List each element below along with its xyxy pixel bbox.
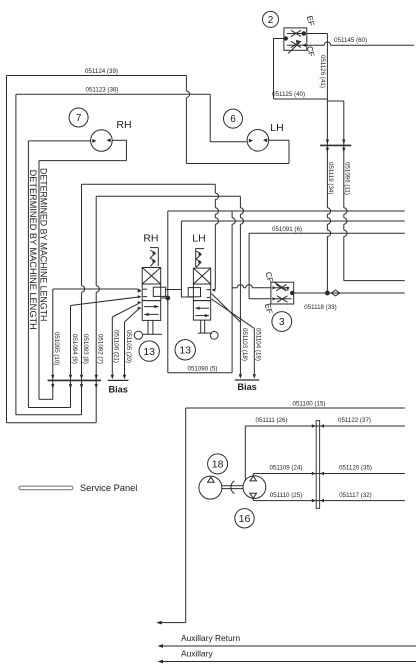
wire 051106 (21) bias riser	[111, 317, 113, 376]
bus line3	[181, 220, 404, 222]
hose 051090 right riser x=232.1	[231, 211, 233, 218]
svg-text:7: 7	[76, 113, 82, 124]
wire 051100 left drop	[185, 408, 187, 623]
wire EF to drop 051126	[307, 33, 328, 35]
connector bar	[48, 379, 101, 381]
svg-text:051090 (5): 051090 (5)	[188, 365, 218, 372]
bias 1 bar	[108, 379, 129, 381]
panel coupler at y=500.6	[312, 499, 316, 503]
coupler bar right	[320, 144, 351, 146]
svg-text:13: 13	[179, 345, 191, 357]
wire 051124 left drop	[6, 76, 8, 423]
junction dot valve3 right port	[291, 291, 294, 294]
valve RH arrow right	[144, 306, 158, 308]
junction dot 051118 x=327.4	[326, 291, 330, 295]
wire RH motor under loop	[125, 140, 127, 160]
svg-text:051111 (26): 051111 (26)	[256, 417, 288, 424]
wire 051123 right drop to LH motor	[209, 94, 211, 142]
bias 2 bar	[235, 379, 260, 381]
valve U3 top orifice X	[276, 284, 287, 291]
svg-text:DETERMINED BY MACHINE LENGTH: DETERMINED BY MACHINE LENGTH	[28, 170, 38, 330]
wire 051094 diagonal into RH valve	[71, 297, 139, 306]
wire auxillary line	[160, 661, 416, 663]
valve LH port ticks	[207, 289, 210, 291]
connector arrows at x=96.2	[95, 375, 98, 380]
valve RH arrow left	[144, 313, 158, 315]
connector arrows at x=52.8	[51, 375, 54, 380]
wire 051123 (38) top run	[16, 93, 210, 95]
motor LH left port arrow	[249, 139, 253, 143]
harness bottom U innermost	[39, 398, 53, 400]
svg-text:051117 (32): 051117 (32)	[339, 492, 371, 499]
valve RH stem	[147, 320, 149, 334]
wire 051124 (39) top run	[7, 75, 187, 77]
wire 051125 (40) line	[274, 98, 328, 100]
wire RH motor right port	[112, 139, 127, 141]
wire 051118 (33) line	[294, 292, 405, 294]
motor RH right port arrow	[107, 138, 111, 142]
svg-text:2: 2	[268, 15, 274, 26]
valve LH middle section	[193, 284, 210, 301]
svg-text:051110 (25): 051110 (25)	[270, 492, 302, 499]
valve LH X-box	[193, 268, 210, 284]
valve RH stem bar	[143, 333, 162, 335]
coupler arrows right pair	[326, 140, 329, 145]
svg-text:051124 (39): 051124 (39)	[85, 68, 118, 75]
valve LH arrow left	[195, 307, 209, 309]
svg-text:16: 16	[239, 513, 251, 525]
wire 051106 diagonal into RH valve	[112, 303, 139, 317]
pump right triangle down	[250, 493, 257, 498]
wire line2 drop x=167.8 with junction	[167, 211, 169, 373]
valve RH solenoid frame and arrows	[150, 247, 158, 249]
svg-text:6: 6	[230, 114, 236, 125]
valve LH arrow right	[195, 315, 209, 317]
wire 051093 (8) riser	[81, 184, 83, 285]
pump left circle	[199, 476, 222, 499]
svg-text:051096 (11): 051096 (11)	[344, 162, 351, 195]
harness bottom U second	[16, 414, 82, 416]
wire 051091 (6) line	[249, 232, 405, 234]
svg-text:LH: LH	[192, 233, 205, 245]
svg-text:13: 13	[143, 346, 155, 358]
pump left triangle	[208, 477, 215, 482]
hose 051090 bottom run	[168, 372, 232, 374]
svg-text:LH: LH	[270, 122, 283, 134]
wire 051093 top run line0	[82, 183, 216, 185]
bias 1 arrows	[111, 375, 114, 380]
wire 051094 (9) riser	[70, 306, 72, 408]
legend service panel symbol	[19, 486, 73, 490]
svg-text:051104 (19): 051104 (19)	[254, 328, 261, 361]
valve U2 bottom orifice X	[291, 41, 301, 47]
panel coupler at y=473.5	[312, 472, 316, 476]
valve U3 bottom orifice X	[277, 296, 288, 302]
wire 051123 left drop	[15, 94, 17, 414]
svg-text:051095 (10): 051095 (10)	[53, 332, 60, 365]
balloon 6	[224, 109, 243, 128]
valve RH middle section	[142, 284, 161, 301]
wire 051109 (24) line	[253, 473, 404, 475]
svg-text:051119 (34): 051119 (34)	[327, 162, 334, 194]
balloon 16	[235, 509, 254, 528]
balloon 2	[263, 11, 279, 27]
balloon 7	[69, 108, 88, 127]
pump right circle	[243, 476, 266, 499]
wire line3 drop x=181.4	[180, 221, 182, 290]
wire 051104 (19) diagonal from LH valve	[212, 299, 252, 326]
balloon 13 LH	[175, 340, 195, 360]
svg-text:051092 (7): 051092 (7)	[97, 334, 104, 364]
wire 051091 drop to valve3 lower-left port	[248, 233, 250, 298]
valve U2 top orifice X	[291, 30, 301, 36]
wire 051100 arrow out	[158, 622, 186, 624]
svg-text:051091 (6): 051091 (6)	[272, 226, 302, 233]
valve LH stem	[200, 320, 202, 333]
wire 051096 corner to right	[344, 280, 405, 282]
valve U3 control arrow	[274, 282, 286, 291]
wire 051111 (26) line	[245, 425, 404, 427]
wire valve3 upper-left port from hose 051090 riser	[232, 287, 237, 289]
junction dot between valves	[166, 296, 170, 300]
wire 051124 right drop to LH motor loop	[185, 76, 187, 91]
motor LH circle	[247, 130, 269, 152]
harness bottom U outermost	[7, 422, 97, 424]
connector arrows at x=81.5	[80, 375, 83, 380]
junction dot EF port	[302, 32, 306, 36]
svg-text:051123 (38): 051123 (38)	[86, 87, 119, 94]
svg-text:051145 (60): 051145 (60)	[334, 37, 367, 44]
wire line0 drop x=215.3 to LH valve right	[214, 184, 216, 193]
svg-text:051100 (15): 051100 (15)	[293, 401, 326, 408]
svg-text:Bias: Bias	[237, 382, 256, 392]
valve LH lower section	[193, 301, 210, 321]
valve U2 control arrow	[288, 43, 300, 54]
pump shaft	[222, 485, 243, 487]
connector arrows at x=70.5	[69, 375, 72, 380]
valve U2 box	[284, 28, 307, 50]
junction dot valve2 left port	[284, 37, 287, 40]
bias 2 arrows	[239, 374, 242, 379]
valve LH gauge circle	[210, 331, 218, 339]
valve LH stem bar	[198, 332, 211, 334]
wire 051110 (25) line	[253, 500, 404, 502]
valve LH solenoid frame and arrows	[196, 248, 204, 250]
svg-text:051106 (21): 051106 (21)	[113, 330, 120, 363]
svg-text:051120 (35): 051120 (35)	[339, 464, 372, 471]
svg-text:051094 (9): 051094 (9)	[71, 334, 78, 364]
motor RH circle	[91, 130, 113, 152]
svg-text:DETERMINED BY MACHINE LENGTH: DETERMINED BY MACHINE LENGTH	[39, 168, 49, 321]
wire 051105 (20) bias riser	[124, 322, 126, 376]
bus line2 051090 upper	[168, 210, 405, 212]
svg-text:RH: RH	[116, 119, 131, 131]
wire 051092 (7) riser	[95, 196, 97, 285]
balloon 18	[208, 454, 228, 474]
wire RH motor left drop	[27, 141, 29, 408]
valve U3 lower port arrow	[272, 297, 276, 300]
wire line1 drop x=240.4 to bias 2	[239, 196, 241, 208]
wire 051126 (41) drop	[326, 34, 328, 208]
wire 051095 (10) riser	[52, 289, 54, 399]
motor RH left port arrow	[92, 139, 96, 143]
wire 051145 (60) line	[303, 44, 324, 46]
wire RH indicator to LH valve Z-link	[166, 290, 194, 298]
svg-text:051105 (20): 051105 (20)	[125, 330, 132, 363]
balloon 13 RH	[139, 341, 159, 361]
check symbol diamond on 051118	[331, 290, 339, 296]
svg-text:Auxillary: Auxillary	[181, 649, 213, 659]
valve RH port ticks	[143, 288, 147, 290]
valve RH position indicator box	[153, 287, 165, 296]
svg-text:Bias: Bias	[108, 384, 127, 394]
svg-text:051118 (33): 051118 (33)	[304, 304, 336, 311]
svg-text:051126 (41): 051126 (41)	[319, 55, 326, 88]
wire RH right port to junction	[161, 297, 168, 299]
valve U2 port arrow	[302, 44, 306, 47]
wire 051092 top run line1	[96, 195, 240, 197]
valve LH position indicator box	[188, 288, 200, 297]
wire auxillary return line	[160, 645, 416, 647]
valve RH lower section	[142, 301, 161, 321]
svg-text:051109 (24): 051109 (24)	[270, 464, 303, 471]
wire RH motor left port	[28, 140, 91, 142]
svg-text:18: 18	[212, 459, 224, 471]
wire pump inlet drop	[244, 426, 246, 480]
svg-text:3: 3	[279, 317, 285, 328]
wire 051095 arrow into RH valve	[138, 289, 142, 292]
wire branch to 051096	[327, 100, 343, 102]
svg-text:051093 (8): 051093 (8)	[82, 334, 89, 364]
service panel vertical	[316, 421, 319, 509]
valve RH X-box	[142, 268, 161, 285]
wire valve2 left port loop	[274, 39, 284, 100]
wire 051095 horizontal run to RH valve	[53, 288, 138, 290]
shaft coupling arc	[231, 481, 235, 494]
pump right triangle up	[250, 476, 257, 481]
wire 051103 (18) diagonal from LH valve	[212, 294, 241, 322]
svg-text:Auxillary Return: Auxillary Return	[181, 633, 240, 643]
valve U3 box	[271, 282, 294, 304]
svg-text:051122 (37): 051122 (37)	[338, 417, 371, 424]
valve RH gauge circle	[134, 331, 142, 339]
svg-text:Service Panel: Service Panel	[80, 483, 137, 493]
panel coupler at y=426	[312, 424, 316, 428]
wire 051100 (15) top line	[186, 407, 405, 409]
svg-text:051125 (40): 051125 (40)	[272, 91, 305, 98]
svg-text:051103 (18): 051103 (18)	[241, 328, 248, 361]
wire 051105 diagonal into RH valve	[125, 309, 140, 322]
balloon 3	[272, 312, 292, 332]
motor LH right port arrow	[263, 138, 267, 142]
svg-text:RH: RH	[143, 233, 158, 245]
harness bottom U third	[28, 407, 70, 409]
wire LH motor right port	[268, 139, 289, 141]
